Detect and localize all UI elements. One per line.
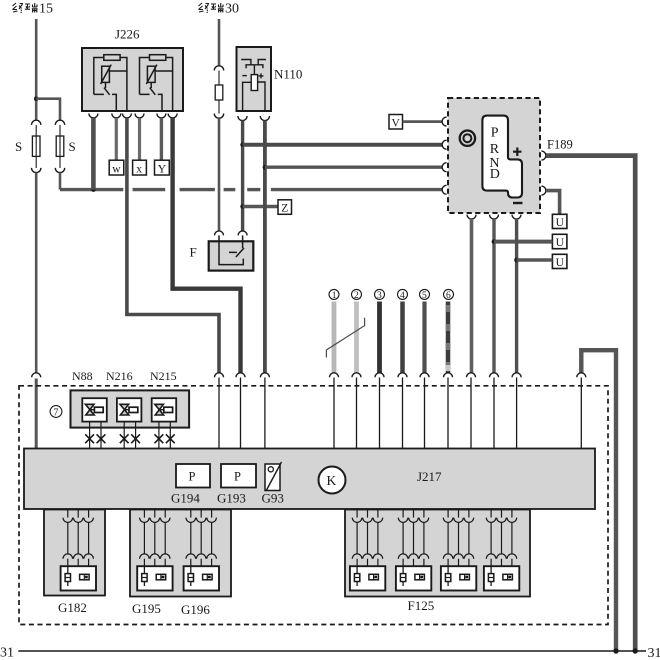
svg-text:P: P xyxy=(189,470,196,484)
connector x box xyxy=(133,160,147,175)
svg-text:F189: F189 xyxy=(547,138,573,152)
svg-text:Z: Z xyxy=(281,203,288,215)
ground rail 31 xyxy=(18,650,646,652)
svg-text:J226: J226 xyxy=(115,27,140,42)
selector bottom pin arcs xyxy=(467,215,521,220)
svg-text:U: U xyxy=(556,217,565,229)
fuse on terminal 30 xyxy=(214,66,223,118)
wire N110 pin1 down to switch F pin2 xyxy=(241,121,244,231)
numbered wire circle 6 xyxy=(444,289,454,301)
solenoid N215 symbol xyxy=(152,398,177,421)
numbered wire 4 xyxy=(400,302,405,374)
crossover mark on wires 1-2 xyxy=(326,318,364,358)
svg-text:K: K xyxy=(327,473,337,488)
wire terminal 15 below fuse to control unit xyxy=(35,173,38,374)
wire terminal 15 main vertical xyxy=(35,19,38,120)
svg-text:7: 7 xyxy=(53,408,58,419)
minus symbol xyxy=(513,202,523,204)
fuse S right xyxy=(55,120,64,172)
junction dot rail inner xyxy=(613,648,618,653)
svg-text:x: x xyxy=(136,163,142,175)
svg-text:31: 31 xyxy=(648,646,660,660)
numbered wire 5 xyxy=(422,302,426,374)
svg-text:U: U xyxy=(556,257,565,269)
sensor G194 box xyxy=(176,464,210,488)
sensor G193 box xyxy=(221,464,256,488)
N110 pin arcs xyxy=(238,116,270,121)
G182 connector and switch unit xyxy=(61,510,96,591)
junction dot J226 pin1 wire on rail xyxy=(91,187,96,192)
J226 pin arcs xyxy=(89,114,177,119)
F125 connector unit 3 xyxy=(441,510,476,591)
connector w box xyxy=(109,160,124,175)
wire to connector Z xyxy=(243,205,278,208)
svg-text:D: D xyxy=(490,167,500,182)
switch F box xyxy=(209,235,254,270)
pin arcs on dashed box top xyxy=(215,373,586,378)
numbered wire circle 3 xyxy=(375,289,385,301)
svg-text:S: S xyxy=(69,139,76,154)
wire jog to fuse S right xyxy=(36,99,60,121)
relay box J226 xyxy=(82,48,183,111)
junction dot U2 branch xyxy=(492,239,497,244)
solenoid legs with x marks xyxy=(90,422,171,449)
svg-text:N216: N216 xyxy=(106,369,133,383)
thin leads from box pins to J217 xyxy=(219,378,581,449)
wire J226 pin6 jog to box pin xyxy=(173,118,241,373)
relay 2 internals xyxy=(140,55,173,111)
svg-text:5: 5 xyxy=(422,291,427,301)
wire fuse S right down to horizontal rail xyxy=(59,173,62,190)
svg-text:G194: G194 xyxy=(171,491,200,506)
svg-text:15: 15 xyxy=(39,2,53,17)
numbered wire 2 xyxy=(354,302,359,374)
wire to connector U3 xyxy=(517,258,553,262)
svg-text:P: P xyxy=(234,470,241,484)
svg-text:3: 3 xyxy=(377,291,382,301)
svg-text:G93: G93 xyxy=(262,491,284,506)
svg-text:S: S xyxy=(15,139,22,154)
selector indicator double circle xyxy=(460,131,475,146)
solenoid N88 symbol xyxy=(82,398,107,421)
svg-text:w: w xyxy=(112,163,121,175)
terminal 15 label xyxy=(13,3,38,13)
horizontal rail y=189.6 to selector pin 4 (with crossing breaks) xyxy=(60,188,442,191)
numbered wire circle 2 xyxy=(352,289,362,301)
svg-text:F: F xyxy=(190,245,197,260)
wire selector bottom pin1 down xyxy=(470,219,474,373)
solenoid valve group box xyxy=(71,390,190,427)
solenoid N216 symbol xyxy=(117,398,141,421)
wire J226 pin4 to connector x xyxy=(138,118,141,160)
svg-text:6: 6 xyxy=(446,291,451,301)
pin arc terminal15 at dashed box xyxy=(32,373,41,378)
sensor G93 symbol xyxy=(265,462,282,491)
numbered wire circle 5 xyxy=(420,289,430,301)
svg-text:30: 30 xyxy=(225,2,239,17)
G195 connector and switch unit xyxy=(137,510,172,591)
svg-text:P: P xyxy=(491,125,499,140)
junction dot N110 pin1 / selector feed xyxy=(240,142,245,147)
svg-text:J217: J217 xyxy=(417,469,442,484)
wire J226 pin2 to connector w xyxy=(115,118,118,160)
svg-text:N215: N215 xyxy=(150,369,177,383)
svg-text:F125: F125 xyxy=(408,598,435,613)
junction dot terminal 15 split xyxy=(34,96,39,101)
selector lever unit F189 dashed box xyxy=(448,98,540,213)
svg-text:N110: N110 xyxy=(274,67,302,82)
connector U1 box xyxy=(552,214,567,228)
svg-text:4: 4 xyxy=(400,291,405,301)
wire terminal15 inside box to J217 xyxy=(35,379,38,449)
connector K circle xyxy=(319,467,346,494)
svg-text:G193: G193 xyxy=(217,491,246,506)
numbered wire circle 4 xyxy=(398,289,408,301)
wire F189 output to ground rail right xyxy=(546,156,635,651)
sensor group G195 G196 box xyxy=(130,510,231,597)
shifter gate shape PRND xyxy=(482,116,522,198)
svg-text:1: 1 xyxy=(332,291,337,301)
svg-text:R: R xyxy=(490,142,500,157)
junction dot N110 pin2 / selector feed xyxy=(263,165,268,170)
wire J226 pin5 to connector Y xyxy=(160,118,163,160)
sensor group G182 box xyxy=(44,510,105,596)
numbered wire 3 xyxy=(377,302,382,374)
wire right pin to ground rail (inner) xyxy=(581,350,616,651)
svg-text:Y: Y xyxy=(158,163,167,175)
junction dot rail outer xyxy=(633,648,638,653)
wire to connector U2 xyxy=(494,240,552,244)
numbered wire circle 1 xyxy=(329,289,339,301)
terminal 30 label xyxy=(199,3,224,13)
wire selector right pin2 to connector U1 xyxy=(546,191,560,215)
numbered wire 6 striped xyxy=(446,302,451,374)
wire to selector pin2 xyxy=(243,143,442,147)
svg-text:V: V xyxy=(392,117,401,129)
svg-text:31: 31 xyxy=(0,646,14,660)
transmission unit dashed box xyxy=(19,386,608,625)
plus symbol xyxy=(513,148,522,157)
solenoid N110 xyxy=(237,47,272,111)
switch F pin arcs xyxy=(215,231,248,236)
wire V to selector pin1 xyxy=(403,120,443,123)
svg-text:N88: N88 xyxy=(72,369,93,383)
connector Z box xyxy=(278,200,292,215)
svg-text:G196: G196 xyxy=(181,602,210,617)
wire terminal 30 to switch F pin1 xyxy=(218,118,221,231)
wire selector bottom pin2 down xyxy=(492,219,495,373)
junction dot U3 branch xyxy=(514,258,519,263)
svg-text:G195: G195 xyxy=(132,601,161,616)
connector V box xyxy=(389,115,403,130)
wire terminal 30 vertical xyxy=(218,19,221,66)
wire J226 pin1 down to rail junction xyxy=(91,118,96,190)
sensor group F125 box xyxy=(345,510,530,597)
connector U3 box xyxy=(552,254,567,268)
svg-text:G182: G182 xyxy=(58,600,87,615)
F125 connector unit 2 xyxy=(396,510,431,591)
wire J226 pin3 jog to box pin xyxy=(127,118,219,373)
wire selector bottom pin3 down xyxy=(515,219,518,373)
junction dot Z branch xyxy=(240,204,245,209)
fuse S left xyxy=(32,120,41,172)
relay 1 internals xyxy=(94,55,127,111)
wire N110 pin2 down to box pin xyxy=(263,121,267,374)
wire to selector pin3 xyxy=(265,165,442,168)
svg-text:2: 2 xyxy=(354,291,359,301)
selector left pin arcs xyxy=(442,117,447,194)
connector Y box xyxy=(155,160,170,175)
F125 connector unit 4 xyxy=(484,510,519,591)
connector U2 box xyxy=(552,234,567,248)
circled 7 xyxy=(50,406,62,419)
F125 connector unit 1 xyxy=(350,510,385,591)
control unit J217 box xyxy=(24,449,595,510)
svg-text:U: U xyxy=(556,237,565,249)
G196 connector and switch unit xyxy=(184,510,219,591)
selector right pin arcs xyxy=(541,151,546,195)
numbered wire 1 xyxy=(332,302,337,374)
